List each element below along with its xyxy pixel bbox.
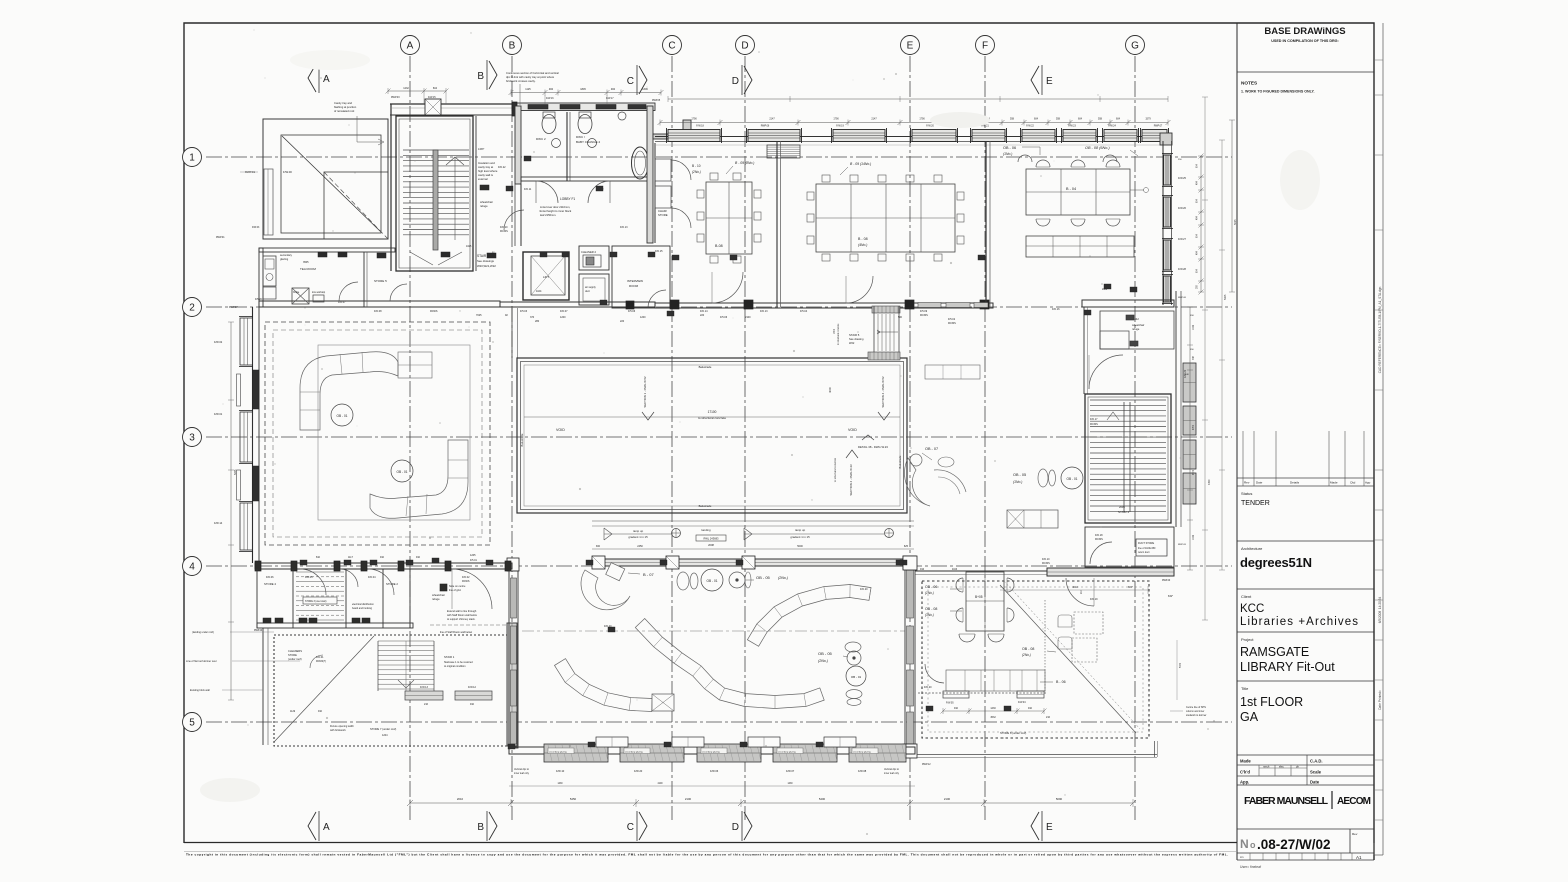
RWL box	[696, 535, 726, 541]
svg-text:Made: Made	[1330, 481, 1338, 485]
grid line 3 horizontal	[206, 436, 1232, 438]
svg-text:2100: 2100	[944, 797, 951, 801]
B-04 chair arcs top	[1036, 160, 1050, 167]
svg-text:STORE 8 (under roof): STORE 8 (under roof)	[1000, 731, 1026, 735]
svg-text:3: 3	[189, 433, 195, 444]
svg-text:brickwork crosses cavity.: brickwork crosses cavity.	[506, 79, 536, 83]
stair 4 centre divider	[1123, 402, 1125, 512]
west wall pier bumps	[237, 374, 241, 406]
svg-text:Note on centre: Note on centre	[449, 585, 466, 588]
dim string above stair3	[388, 90, 446, 92]
lift shaft walls	[523, 252, 569, 300]
svg-text:INTERVIEW: INTERVIEW	[627, 279, 643, 283]
store7 dashed boundary	[274, 635, 509, 746]
OB-01 label circle 2	[391, 460, 413, 482]
svg-text:B - 09 (14No.): B - 09 (14No.)	[850, 162, 871, 166]
wing east wall window units	[1164, 155, 1171, 185]
svg-text:RWP.01: RWP.01	[216, 236, 225, 239]
svg-text:RWP.05: RWP.05	[652, 100, 661, 102]
svg-text:SECTION 2 - DWG W.33: SECTION 2 - DWG W.33	[849, 464, 853, 496]
svg-text:1: 1	[189, 153, 195, 164]
OB-01 circle centre bottom	[677, 572, 689, 590]
OB-01 dashed boundary	[265, 322, 490, 545]
B-05 chairs	[959, 634, 975, 642]
wheelchair refuge room	[1100, 311, 1174, 349]
mid-top strip south wall	[500, 302, 655, 307]
svg-text:secondary: secondary	[280, 253, 293, 257]
svg-text:line of 1100x450: line of 1100x450	[1138, 547, 1156, 550]
svg-text:604: 604	[1034, 118, 1039, 121]
svg-text:F/D.02: F/D.02	[462, 576, 470, 579]
svg-text:FD30S: FD30S	[462, 580, 470, 583]
svg-text:USED IN COMPILATION OF THIS DR: USED IN COMPILATION OF THIS DRG:	[1271, 39, 1339, 43]
store5 door arc	[390, 284, 407, 301]
meeting table B-08	[706, 182, 752, 254]
svg-text:VOID: VOID	[848, 428, 857, 432]
svg-text:FABER MAUNSELL: FABER MAUNSELL	[1244, 795, 1329, 807]
svg-text:B - 08: B - 08	[858, 237, 868, 241]
svg-text:Vertical dpc to: Vertical dpc to	[514, 768, 530, 771]
grid bubble 3	[183, 428, 202, 447]
svg-text:LIBRARY Fit-Out: LIBRARY Fit-Out	[1240, 660, 1335, 674]
svg-text:wheelchair: wheelchair	[1132, 323, 1145, 327]
svg-text:Rev: Rev	[1352, 832, 1358, 836]
wing NE corner	[1160, 133, 1172, 145]
svg-text:F/D.14: F/D.14	[700, 310, 708, 313]
svg-text:DUCT STORE: DUCT STORE	[1138, 542, 1154, 545]
chair store walls	[654, 143, 656, 243]
svg-text:OB - 01: OB - 01	[397, 470, 408, 474]
svg-text:C: C	[668, 41, 675, 52]
small black door frame marks scattered	[506, 186, 513, 191]
svg-text:F/D.07: F/D.07	[560, 310, 568, 313]
grid bubble 5	[183, 713, 202, 732]
svg-text:to structural concrete: to structural concrete	[837, 323, 840, 345]
svg-text:A: A	[407, 41, 414, 52]
svg-text:1042: 1042	[1193, 324, 1195, 330]
B-04 desk cluster	[1026, 169, 1130, 215]
grid bubble B	[503, 36, 522, 55]
store8 diagonal	[1000, 585, 1136, 733]
svg-text:Date: Date	[1256, 481, 1263, 485]
stair 1	[378, 640, 434, 642]
svg-text:D: D	[741, 41, 748, 52]
south wall band	[509, 747, 915, 754]
svg-text:5: 5	[189, 718, 195, 729]
svg-text:910: 910	[954, 707, 959, 710]
svg-text:F/5.03: F/5.03	[520, 310, 528, 313]
svg-text:604: 604	[1116, 118, 1121, 121]
svg-text:F/D.15: F/D.15	[655, 250, 663, 253]
section marker E bottom	[1031, 812, 1039, 840]
svg-text:F/W.15: F/W.15	[428, 96, 436, 99]
chairs around B-08 table	[697, 190, 704, 198]
OB-07 curved desk	[904, 458, 930, 506]
sofa curve bottom-right	[370, 440, 468, 518]
wash circle top right	[618, 112, 626, 120]
worktop	[313, 295, 324, 302]
svg-text:910: 910	[1028, 707, 1033, 710]
svg-text:W20,W21,W22: W20,W21,W22	[477, 264, 496, 268]
svg-text:604: 604	[1078, 118, 1083, 121]
svg-text:F/D.11: F/D.11	[524, 188, 532, 191]
svg-text:Title: Title	[1241, 686, 1249, 691]
svg-text:F/W.13: F/W.13	[420, 686, 429, 689]
svg-text:Client: Client	[1241, 594, 1252, 599]
grid bubble 4	[183, 557, 202, 576]
svg-text:G: G	[1131, 41, 1139, 52]
grid line C vertical	[671, 56, 673, 820]
svg-text:558: 558	[1098, 118, 1103, 121]
sofa curve top-left	[300, 352, 398, 430]
sheet border frame	[184, 23, 1374, 860]
svg-text:OB - 01: OB - 01	[337, 414, 348, 418]
svg-text:B - 09 (8No.): B - 09 (8No.)	[735, 161, 754, 165]
svg-text:484: 484	[549, 88, 554, 91]
chair store door arcs	[671, 160, 691, 180]
svg-text:to original condition: to original condition	[444, 665, 466, 668]
svg-text:4000: 4000	[828, 387, 832, 393]
shelf row above dormer wall	[946, 670, 1045, 691]
svg-text:W22: W22	[849, 341, 855, 345]
svg-text:to structural concrete: to structural concrete	[698, 416, 726, 420]
svg-text:N: N	[1240, 837, 1249, 851]
shelf X box left	[652, 694, 674, 711]
svg-text:The copyright in this document: The copyright in this document (includin…	[186, 853, 1228, 857]
svg-text:(under roof): (under roof)	[288, 657, 302, 661]
svg-text:2005: 2005	[1102, 289, 1108, 291]
svg-text:(2No.): (2No.)	[692, 170, 701, 174]
svg-text:high level where: high level where	[478, 169, 498, 173]
fridge X box	[292, 288, 309, 304]
tea room south wall (grid2)	[259, 301, 500, 307]
svg-text:F/W.24: F/W.24	[1108, 125, 1116, 128]
svg-text:F/W.02: F/W.02	[214, 340, 223, 344]
svg-text:D: D	[732, 76, 739, 87]
svg-text:7025: 7025	[476, 314, 482, 317]
doors in south wall rooms	[712, 272, 743, 303]
svg-text:5205: 5205	[234, 469, 237, 475]
svg-text:E: E	[1046, 76, 1053, 87]
tea room north wall	[259, 248, 395, 252]
room divider wall E	[985, 141, 987, 307]
svg-text:4570: 4570	[1193, 469, 1195, 475]
west wall main lines	[252, 307, 254, 563]
svg-text:F/D.16: F/D.16	[1052, 308, 1060, 311]
east lobby west wall	[1083, 307, 1085, 394]
svg-text:GA: GA	[1240, 710, 1259, 724]
east thick wall of store7	[507, 623, 517, 746]
svg-text:2008: 2008	[708, 543, 714, 547]
void outer rect	[517, 358, 907, 513]
chairs around big table	[822, 175, 830, 182]
svg-text:F/W.20: F/W.20	[926, 125, 934, 128]
step wall to wing	[653, 134, 687, 139]
svg-text:F/W.20: F/W.20	[634, 769, 643, 773]
svg-text:ramp up: ramp up	[795, 528, 806, 532]
svg-text:external: external	[478, 177, 488, 181]
svg-text:C: C	[627, 822, 634, 833]
svg-text:electrical distribution: electrical distribution	[352, 603, 374, 606]
cleaners door arc	[310, 655, 323, 668]
svg-text:App.: App.	[1240, 780, 1249, 785]
svg-text:KCC: KCC	[1240, 603, 1264, 615]
svg-text:F/D.17: F/D.17	[1090, 418, 1098, 421]
svg-text:STAIR 1: STAIR 1	[444, 655, 455, 659]
svg-text:Balustrade: Balustrade	[520, 433, 524, 446]
wall column squares	[670, 300, 679, 309]
svg-text:Continuous section of horizont: Continuous section of horizontal and ver…	[506, 71, 559, 75]
svg-text:F/W.28: F/W.28	[1178, 268, 1187, 271]
west wall dark pier segments	[253, 370, 260, 409]
cabinet row	[1026, 236, 1134, 257]
svg-text:2005: 2005	[1119, 505, 1125, 509]
svg-text:810: 810	[316, 556, 321, 559]
ramp column circle 2	[885, 529, 894, 538]
door arc west of store8	[925, 664, 944, 683]
svg-text:216: 216	[424, 703, 429, 706]
svg-text:glazing: glazing	[280, 257, 289, 261]
svg-text:5400: 5400	[819, 797, 826, 801]
svg-text:mech: mech	[1263, 765, 1270, 769]
svg-text:Staircase 1 to be restored: Staircase 1 to be restored	[444, 661, 473, 664]
svg-text:1790: 1790	[691, 118, 697, 121]
svg-text:(landing under roof): (landing under roof)	[192, 631, 214, 634]
svg-text:558: 558	[1056, 118, 1061, 121]
svg-text:F/D.20: F/D.20	[924, 686, 932, 689]
svg-text:Vertical dpc to: Vertical dpc to	[884, 768, 900, 771]
svg-text:gradient 1 in 15: gradient 1 in 15	[628, 535, 648, 539]
svg-text:5025: 5025	[1234, 219, 1237, 225]
scan specks	[533, 151, 535, 153]
svg-text:RWP.07: RWP.07	[229, 306, 238, 309]
svg-text:F/D.18: F/D.18	[1095, 534, 1103, 537]
svg-text:F/W.03: F/W.03	[252, 227, 260, 229]
bottom-right roof outline	[917, 754, 1157, 756]
dotted vertical store8 inner	[1044, 600, 1046, 693]
svg-text:to support chimney stack.: to support chimney stack.	[447, 618, 476, 621]
svg-text:FD30S: FD30S	[1042, 562, 1050, 565]
svg-text:(3No.): (3No.)	[925, 613, 934, 617]
svg-text:F/5.06: F/5.06	[720, 316, 728, 319]
svg-text:5025: 5025	[1224, 294, 1227, 300]
stores partitions	[256, 569, 258, 628]
south wall bar of east block	[1047, 568, 1174, 576]
section marker A top	[308, 64, 316, 92]
svg-text:secondary glazing: secondary glazing	[778, 751, 796, 754]
title block: revision table	[1242, 431, 1244, 486]
svg-text:leaf 2150mm.: leaf 2150mm.	[540, 213, 557, 217]
svg-text:LIFT: LIFT	[543, 275, 549, 279]
svg-text:F/W.27: F/W.27	[1178, 238, 1187, 241]
door posts on stores wall	[255, 561, 261, 571]
svg-text:E: E	[907, 41, 914, 52]
ramp arrow 2	[744, 528, 752, 540]
svg-text:STORE: STORE	[658, 213, 668, 217]
grid line B vertical	[511, 56, 513, 820]
svg-text:910: 910	[318, 710, 323, 713]
svg-text:Rev: Rev	[1244, 481, 1250, 485]
svg-text:of reinstated roof.: of reinstated roof.	[334, 109, 355, 113]
title block: BASE DRAWINGS box	[1237, 71, 1374, 73]
lower west wall	[262, 628, 264, 745]
toilets partition wall	[566, 112, 568, 181]
svg-text:refuge: refuge	[480, 204, 488, 208]
svg-text:studwork to dormer: studwork to dormer	[1186, 714, 1207, 717]
svg-text:F/W.07: F/W.07	[786, 769, 795, 773]
roof block inner rect	[281, 135, 381, 233]
svg-text:1579: 1579	[1145, 118, 1151, 121]
section marker E top	[1031, 66, 1039, 94]
svg-text:fridge: fridge	[293, 291, 300, 294]
svg-text:B - 10: B - 10	[692, 164, 701, 168]
svg-text:F/W.05: F/W.05	[946, 702, 954, 705]
svg-text:BABY CHANGE 2: BABY CHANGE 2	[576, 140, 600, 144]
wall columns	[592, 556, 605, 569]
svg-text:inner leaf only: inner leaf only	[884, 772, 900, 775]
big meeting table	[816, 184, 955, 252]
grid bubble A	[401, 36, 420, 55]
east glazing column	[1175, 291, 1177, 527]
duct store label box	[1136, 539, 1167, 556]
svg-text:BASE DRAWiNGS: BASE DRAWiNGS	[1264, 26, 1345, 37]
right dim string 2	[1231, 120, 1233, 292]
svg-text:910: 910	[920, 568, 925, 571]
stores north wall	[255, 563, 512, 569]
svg-text:F/D.22: F/D.22	[498, 166, 506, 169]
svg-text:B: B	[477, 71, 484, 82]
duct store door arc	[1090, 542, 1112, 564]
svg-text:F/D.19: F/D.19	[1090, 598, 1098, 601]
svg-text:A1: A1	[1356, 855, 1362, 860]
svg-text:(2No.): (2No.)	[778, 576, 788, 580]
svg-text:B+05: B+05	[975, 595, 983, 599]
svg-text:F/W.23: F/W.23	[1068, 125, 1076, 128]
svg-text:Details: Details	[1290, 481, 1300, 485]
svg-text:RWL 243683: RWL 243683	[704, 537, 720, 541]
south wall windows E-F	[918, 303, 941, 308]
grid bubble E	[901, 36, 920, 55]
pier boxes between windows	[596, 737, 628, 747]
svg-text:OB - 05: OB - 05	[818, 651, 833, 656]
tea room west wall	[259, 248, 263, 307]
svg-text:line of grid.: line of grid.	[449, 589, 462, 592]
lobby door arcs	[536, 181, 558, 203]
svg-text:ramp up: ramp up	[633, 529, 644, 533]
svg-text:(1No.): (1No.)	[1013, 480, 1022, 484]
door arc east lobby	[1089, 355, 1123, 389]
grid line D vertical	[744, 56, 746, 820]
svg-text:C'k'd: C'k'd	[1240, 770, 1250, 775]
stair 3 centre divider	[433, 150, 438, 250]
svg-text:RWP.08: RWP.08	[1178, 297, 1187, 299]
svg-text:1. WORK TO FIGURED DIMENSIONS: 1. WORK TO FIGURED DIMENSIONS ONLY.	[1241, 90, 1314, 94]
svg-text:elec: elec	[1279, 765, 1284, 769]
svg-text:DWC /: DWC /	[576, 135, 585, 139]
svg-text:Balustrade: Balustrade	[699, 504, 712, 508]
svg-text:F/D.04: F/D.04	[368, 576, 376, 579]
title block divider line	[1236, 23, 1238, 860]
store8 dormer dims	[943, 710, 1044, 712]
scan smudge marks	[290, 50, 370, 70]
svg-text:low worktop: low worktop	[312, 291, 326, 294]
toilets right wall	[647, 106, 653, 243]
svg-text:F/W.22: F/W.22	[1026, 125, 1034, 128]
svg-text:4043: 4043	[952, 569, 958, 571]
WC pan 2	[578, 115, 592, 134]
svg-text:280: 280	[535, 320, 540, 323]
roof diagonal dashed	[324, 172, 388, 239]
svg-text:Balustrade: Balustrade	[699, 365, 712, 369]
svg-text:(2No.): (2No.)	[818, 659, 828, 663]
svg-text:FD30S: FD30S	[920, 314, 928, 317]
svg-text:DETAIL 38 - DWG W.23: DETAIL 38 - DWG W.23	[858, 445, 888, 449]
svg-text:F/W.14: F/W.14	[214, 521, 223, 525]
svg-text:App: App	[1365, 481, 1371, 485]
sofa attachment rect	[398, 352, 432, 378]
svg-text:Extend wall to line through: Extend wall to line through	[447, 610, 477, 613]
right dim string 1	[1200, 156, 1202, 292]
OB-01 inner floor rect	[318, 345, 470, 520]
svg-text:DWC 2: DWC 2	[536, 137, 546, 141]
svg-text:C: C	[627, 76, 634, 87]
shelving curve upper right	[747, 585, 871, 647]
svg-text:1042: 1042	[1193, 534, 1195, 540]
svg-text:STORE 3 (over stair): STORE 3 (over stair)	[305, 600, 327, 603]
svg-text:4: 4	[189, 562, 195, 573]
svg-text:line of Staff Room wall below: line of Staff Room wall below	[440, 631, 472, 634]
svg-text:1025: 1025	[466, 245, 472, 248]
store door arcs	[300, 569, 326, 595]
grid bubble 1	[183, 148, 202, 167]
svg-text:wheelchair: wheelchair	[432, 593, 445, 597]
svg-text:STORE 5: STORE 5	[374, 279, 387, 283]
void inner rects	[521, 362, 904, 510]
svg-text:F/D.10: F/D.10	[500, 226, 508, 229]
svg-text:OB - 08: OB - 08	[925, 607, 937, 611]
svg-text:Date Printed=: Date Printed=	[1378, 690, 1382, 710]
svg-text:inner leaf only: inner leaf only	[514, 772, 530, 775]
tea room door arc	[339, 282, 358, 301]
svg-text:1790: 1790	[833, 118, 839, 121]
interview room	[612, 246, 670, 308]
svg-text:F/5SKI: F/5SKI	[255, 298, 263, 301]
svg-text:STORE 2: STORE 2	[386, 582, 398, 586]
roof ladder hatch box	[767, 145, 800, 158]
grid line 5 horizontal	[206, 721, 1232, 723]
svg-text:F/W.08: F/W.08	[858, 769, 867, 773]
roof block inner rect 2	[324, 172, 388, 239]
svg-text:Libraries +Archives: Libraries +Archives	[1240, 616, 1358, 628]
svg-text:secondary glazing: secondary glazing	[702, 751, 720, 754]
title block: made/cad table	[1237, 764, 1374, 766]
WC pan 1	[542, 115, 556, 134]
svg-text:F/D.08: F/D.08	[374, 310, 382, 313]
svg-text:RWP.09: RWP.09	[1178, 544, 1187, 546]
store8 inner dotted offset	[928, 587, 1143, 732]
interview door arc	[648, 290, 666, 308]
svg-text:625: 625	[904, 545, 909, 548]
right dim lower	[1189, 307, 1191, 570]
svg-text:1845: 1845	[580, 88, 586, 91]
svg-text:with Staff Room wall below: with Staff Room wall below	[447, 614, 477, 617]
svg-text:2147: 2147	[871, 118, 877, 121]
wing north wall window units	[668, 130, 720, 142]
east window panels	[1183, 363, 1196, 402]
svg-text:secondary glazing: secondary glazing	[853, 751, 871, 754]
svg-text:1430: 1430	[557, 783, 563, 785]
svg-text:OB - 08 (6No.): OB - 08 (6No.)	[1085, 146, 1110, 150]
